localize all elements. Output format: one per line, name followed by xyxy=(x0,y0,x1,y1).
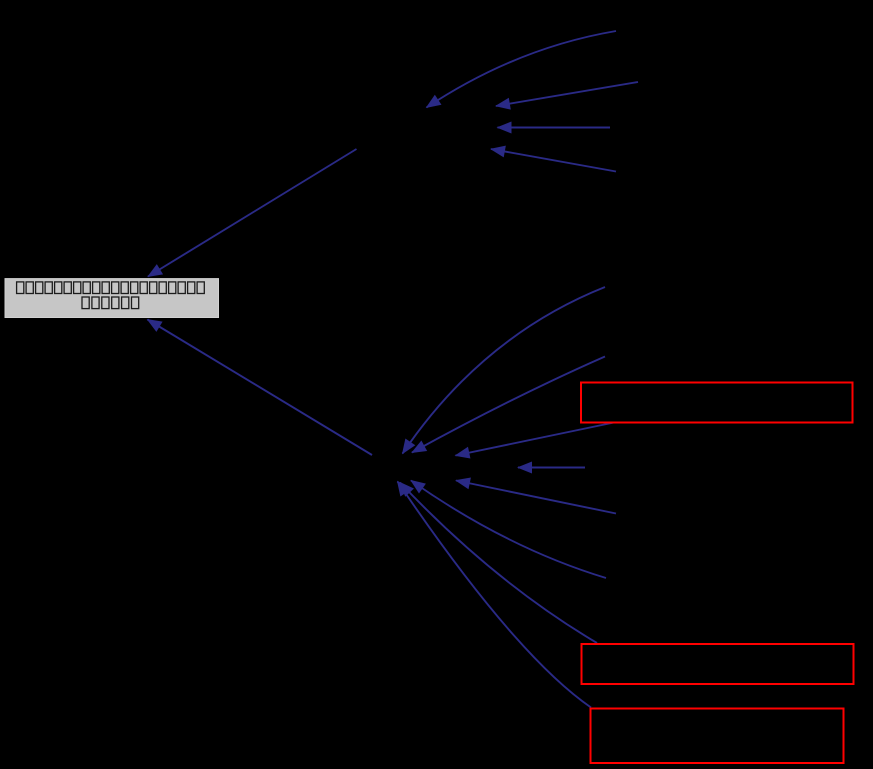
edge E0b: node N2 -> grey function node xyxy=(148,320,373,456)
edge A: caller -> node N2 (curved from upper right) xyxy=(403,287,606,454)
edge S6: caller -> node N2 (curved) xyxy=(411,481,606,579)
node: truncated caller box 3 (red outline) xyxy=(591,709,844,764)
edge S8: red box 3 -> node N2 (curved) xyxy=(398,482,592,708)
edge R1: red box 1 -> node N2 xyxy=(456,423,615,456)
edge E2: caller -> node N1 xyxy=(496,82,638,106)
label row 1: 20 tofu glyphs xyxy=(17,282,205,294)
node: truncated caller box 1 (red outline) xyxy=(581,383,853,423)
node: current function (grey filled box with missing-glyph label) xyxy=(5,279,219,318)
edge H: caller -> node N2 (horizontal) xyxy=(518,467,585,469)
label row 2: 6 tofu glyphs xyxy=(82,297,139,309)
edge E0a: node N1 -> grey function node xyxy=(148,149,357,277)
node: truncated caller box 2 (red outline) xyxy=(582,644,854,684)
edge E1: caller -> node N1 (curved) xyxy=(427,31,617,108)
edge S7: red box 2 -> node N2 (curved) xyxy=(400,483,597,644)
edge E3: caller -> node N1 (horizontal) xyxy=(498,127,611,129)
edge S5: caller -> node N2 xyxy=(456,481,616,514)
edge E4: caller -> node N1 xyxy=(491,149,616,172)
edge B: caller -> node N2 (gentle curve) xyxy=(412,357,605,453)
